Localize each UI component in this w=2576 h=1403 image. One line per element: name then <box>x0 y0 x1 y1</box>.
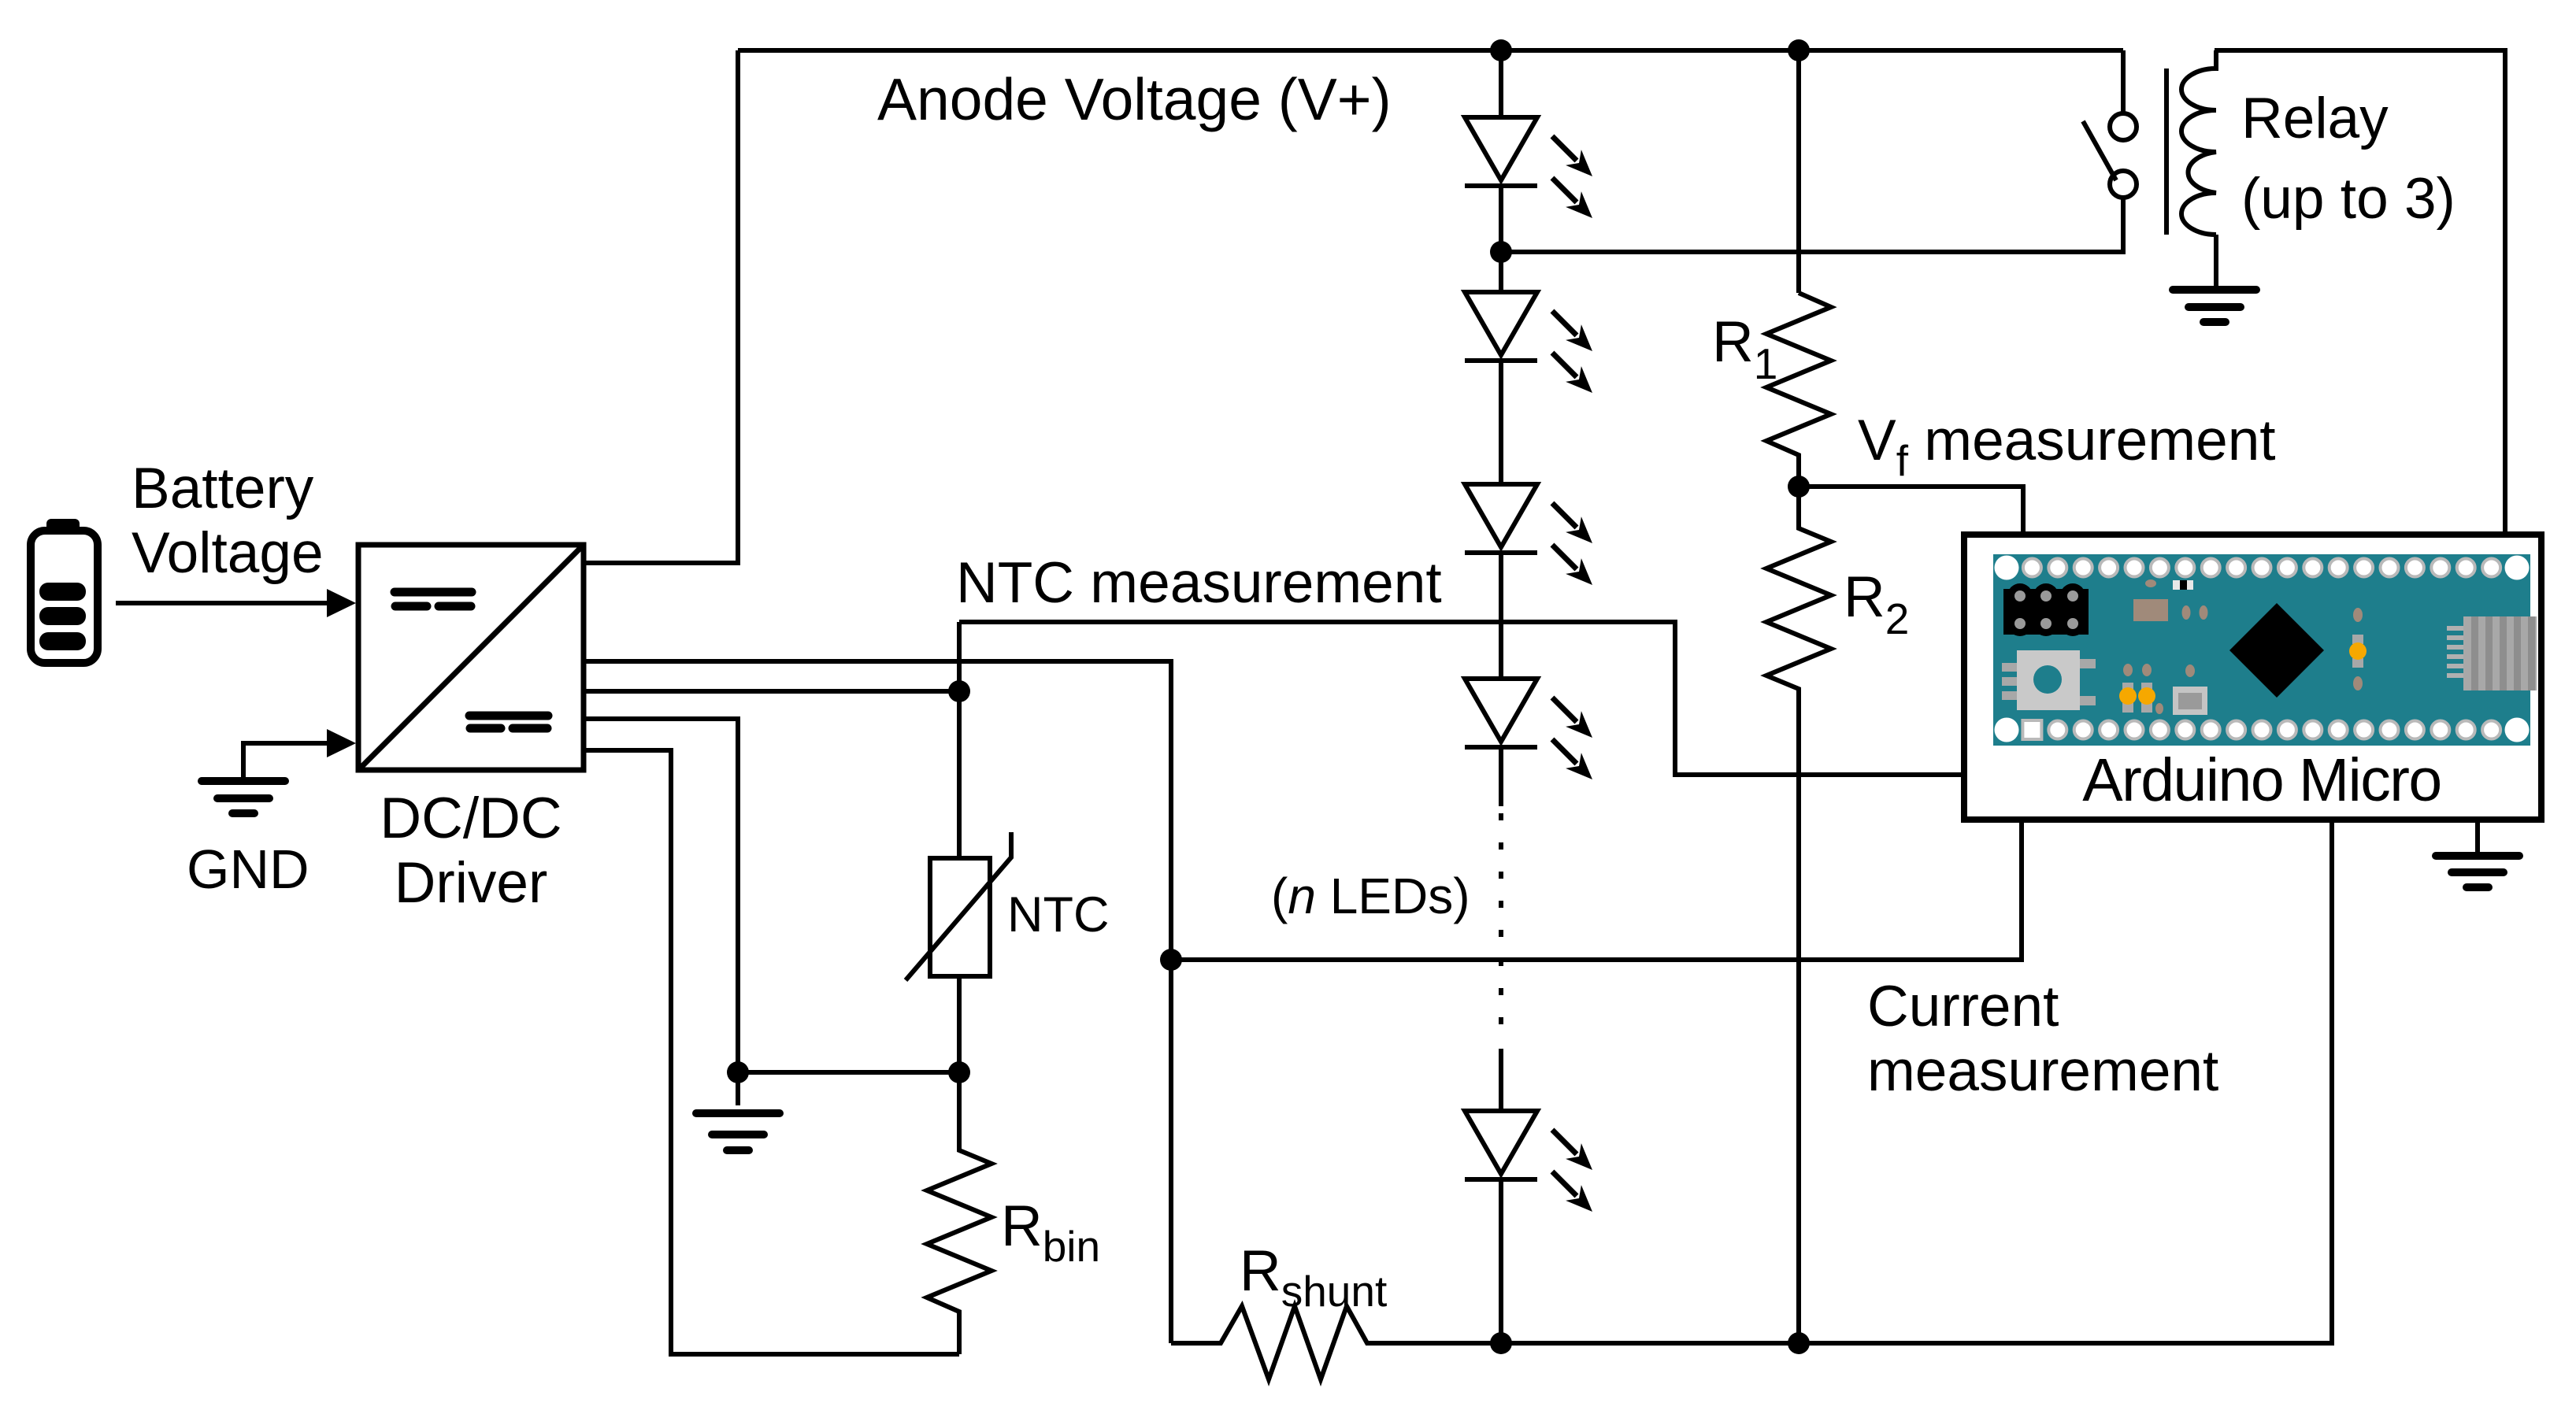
svg-text:Relay: Relay <box>2241 87 2389 150</box>
svg-text:Driver: Driver <box>395 851 548 915</box>
svg-text:Arduino Micro: Arduino Micro <box>2082 746 2441 814</box>
svg-text:Current: Current <box>1867 975 2059 1038</box>
svg-text:GND: GND <box>187 838 309 900</box>
svg-text:NTC: NTC <box>1007 887 1109 942</box>
svg-text:Voltage: Voltage <box>132 521 324 585</box>
svg-text:(up to 3): (up to 3) <box>2241 167 2456 231</box>
svg-text:measurement: measurement <box>1867 1039 2218 1103</box>
svg-text:Anode Voltage (V+): Anode Voltage (V+) <box>877 66 1392 132</box>
svg-text:(n LEDs): (n LEDs) <box>1271 868 1470 924</box>
svg-text:Battery: Battery <box>132 457 314 520</box>
svg-text:NTC measurement: NTC measurement <box>956 551 1442 615</box>
svg-text:DC/DC: DC/DC <box>380 787 562 850</box>
